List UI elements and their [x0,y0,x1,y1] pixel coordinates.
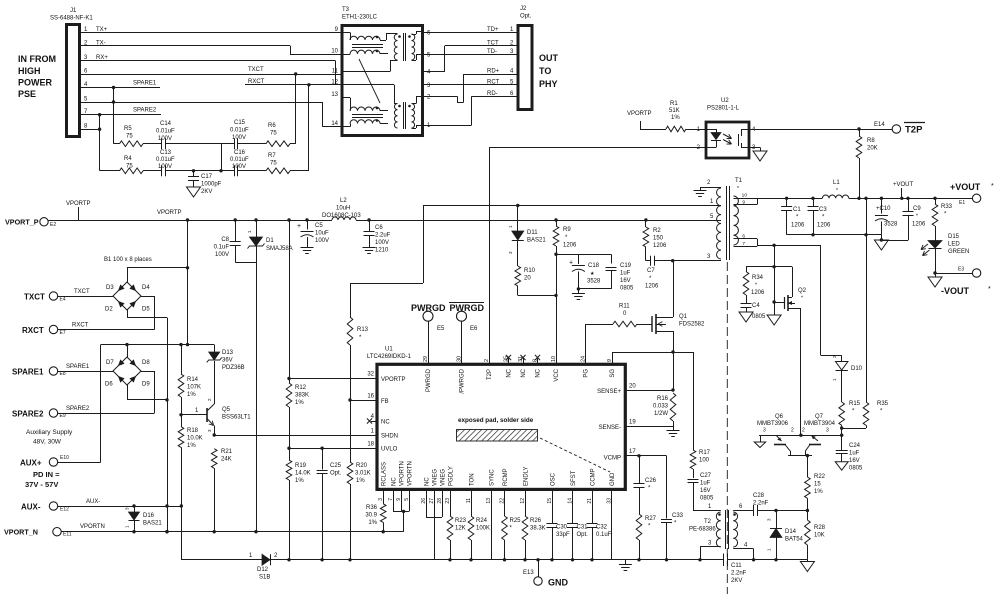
svg-text:1uF: 1uF [849,451,860,457]
svg-text:150: 150 [653,236,664,242]
svg-text:D10: D10 [851,366,863,372]
svg-text:T2: T2 [704,519,712,525]
svg-text:E1: E1 [959,200,965,206]
svg-text:S1B: S1B [259,575,270,581]
svg-text:C30: C30 [556,525,568,531]
svg-text:D14: D14 [785,529,797,535]
svg-text:Opt.: Opt. [520,14,532,20]
svg-text:C13: C13 [160,150,172,156]
svg-text:*: * [988,286,991,293]
svg-text:VPORTP: VPORTP [381,377,406,383]
svg-text:R16: R16 [657,396,669,402]
svg-text:R11: R11 [619,304,630,310]
svg-text:SYNC: SYNC [490,469,496,486]
svg-text:100V: 100V [315,238,329,244]
svg-text:PHY: PHY [539,79,558,89]
svg-text:C18: C18 [588,263,600,269]
svg-text:SENSE-: SENSE- [599,425,621,431]
svg-text:14: 14 [331,121,338,127]
svg-text:L1: L1 [833,180,840,186]
svg-text:0.01uF: 0.01uF [156,129,175,135]
svg-text:Q6: Q6 [775,414,784,420]
svg-text:/PWRGD: /PWRGD [460,368,466,393]
svg-text:C16: C16 [234,150,246,156]
svg-text:Q5: Q5 [222,407,231,413]
svg-text:Q7: Q7 [815,414,824,420]
svg-text:TXCT: TXCT [74,289,90,295]
svg-text:R10: R10 [524,268,536,274]
svg-text:33pF: 33pF [556,532,570,538]
svg-text:1%: 1% [187,443,196,449]
svg-text:20: 20 [524,276,531,282]
svg-text:D3: D3 [106,285,114,291]
svg-text:SPARE1: SPARE1 [133,81,157,87]
svg-text:C26: C26 [645,478,657,484]
svg-text:GND: GND [610,472,616,486]
svg-text:R26: R26 [530,518,542,524]
svg-text:L2: L2 [340,198,347,204]
svg-text:VNEG: VNEG [441,469,447,486]
svg-text:MMBT3906: MMBT3906 [757,421,789,427]
svg-text:0805: 0805 [849,466,863,472]
svg-text:D11: D11 [527,230,538,236]
svg-text:SPARE2: SPARE2 [12,410,44,419]
svg-text:R1: R1 [670,101,678,107]
svg-text:14.0K: 14.0K [295,471,311,477]
svg-text:C15: C15 [234,120,246,126]
svg-text:3528: 3528 [587,279,601,285]
svg-text:D15: D15 [948,234,960,240]
svg-text:10: 10 [331,49,338,55]
svg-text:E13: E13 [523,570,534,576]
svg-text:E3: E3 [958,267,964,273]
svg-text:24K: 24K [221,457,232,463]
svg-text:PE-68386: PE-68386 [689,527,716,533]
svg-text:0.1uF: 0.1uF [214,245,230,251]
svg-text:C17: C17 [201,174,213,180]
svg-text:10uH: 10uH [336,206,350,212]
svg-text:★: ★ [590,271,595,277]
svg-text:0.01uF: 0.01uF [230,157,249,163]
svg-text:9: 9 [742,200,745,206]
svg-text:100K: 100K [476,526,490,532]
svg-text:+: + [297,223,301,230]
svg-text:C11: C11 [731,563,742,569]
svg-text:+VOUT: +VOUT [950,182,981,192]
svg-text:75: 75 [270,161,277,167]
svg-text:*: * [836,188,838,194]
svg-text:PWRGD: PWRGD [426,368,432,392]
svg-text:BSS63LT1: BSS63LT1 [222,415,251,421]
svg-text:R18: R18 [187,428,199,434]
svg-text:C14: C14 [160,121,172,127]
svg-text:1%: 1% [295,400,304,406]
svg-text:20: 20 [629,384,636,390]
svg-text:PG: PG [584,369,590,378]
svg-text:AUX+: AUX+ [20,459,42,468]
svg-text:17: 17 [629,449,636,455]
svg-text:C1: C1 [793,207,801,213]
svg-text:C19: C19 [620,263,632,269]
svg-text:0.01uF: 0.01uF [230,128,249,134]
svg-text:AUX-: AUX- [21,503,41,512]
svg-text:NC: NC [521,368,527,377]
svg-text:2.2uF: 2.2uF [375,233,391,239]
svg-text:R17: R17 [699,450,711,456]
svg-text:75: 75 [126,164,133,170]
svg-text:VPORTP: VPORTP [157,210,182,216]
svg-text:VPORT_P: VPORT_P [5,218,39,227]
svg-text:PSE: PSE [18,89,36,99]
svg-text:RXCT: RXCT [72,323,89,329]
svg-text:+C10: +C10 [876,206,891,212]
svg-text:1%: 1% [187,392,196,398]
svg-text:RD-: RD- [487,91,498,97]
svg-text:12K: 12K [455,526,466,532]
svg-text:E2: E2 [50,222,56,228]
svg-text:R36: R36 [366,505,378,511]
svg-text:*: * [755,283,757,289]
svg-text:R35: R35 [877,401,889,407]
svg-text:exposed pad, solder side: exposed pad, solder side [458,417,534,424]
svg-text:TCT: TCT [487,40,499,46]
svg-text:C9: C9 [913,206,921,212]
svg-text:0805: 0805 [620,286,634,292]
svg-text:IN FROM: IN FROM [18,54,56,64]
svg-text:C24: C24 [849,443,861,449]
svg-text:R34: R34 [752,275,764,281]
svg-text:3.01K: 3.01K [355,471,371,477]
svg-text:SS-6488-NF-K1: SS-6488-NF-K1 [50,16,93,22]
svg-text:C31: C31 [577,525,589,531]
svg-text:C7: C7 [647,268,655,274]
svg-text:C33: C33 [672,513,684,519]
svg-text:16: 16 [367,394,374,400]
svg-text:16V: 16V [849,458,860,464]
svg-text:GND: GND [548,578,569,588]
svg-text:SHDN: SHDN [381,434,398,440]
svg-text:R23: R23 [455,518,467,524]
svg-text:CCMP: CCMP [591,468,597,486]
svg-text:13: 13 [331,92,338,98]
svg-text:30.9: 30.9 [365,513,377,519]
svg-text:2KV: 2KV [201,189,212,195]
svg-text:VCMP: VCMP [604,456,621,462]
svg-text:PGDLY: PGDLY [449,466,455,486]
svg-text:BAS21: BAS21 [143,521,162,527]
svg-text:RXCT: RXCT [22,326,44,335]
svg-text:D4: D4 [142,285,150,291]
svg-text:1206: 1206 [791,223,805,229]
svg-text:Q1: Q1 [679,314,688,320]
svg-text:100V: 100V [158,164,172,170]
svg-text:J1: J1 [70,8,77,14]
svg-text:100V: 100V [375,240,389,246]
svg-text:100V: 100V [232,135,246,141]
svg-text:R22: R22 [814,474,826,480]
svg-text:1206: 1206 [751,290,765,296]
svg-text:19: 19 [629,420,636,426]
svg-text:RCLASS: RCLASS [382,462,388,486]
svg-text:48V, 30W: 48V, 30W [33,439,62,446]
svg-text:R9: R9 [563,227,571,233]
svg-text:51K: 51K [669,108,680,114]
svg-text:37V - 57V: 37V - 57V [25,480,58,489]
svg-text:R27: R27 [645,516,657,522]
svg-text:C28: C28 [753,493,765,499]
svg-text:2KV: 2KV [731,578,742,584]
svg-text:1uF: 1uF [620,271,631,277]
svg-text:E10: E10 [60,455,69,461]
svg-text:E7: E7 [60,330,66,336]
svg-text:BAS21: BAS21 [527,238,546,244]
svg-text:C27: C27 [700,473,712,479]
svg-text:+VOUT: +VOUT [893,182,914,188]
svg-text:NC: NC [425,477,431,486]
svg-text:16V: 16V [700,488,711,494]
svg-text:1%: 1% [356,478,365,484]
svg-text:R25: R25 [510,518,522,524]
svg-text:NC: NC [507,368,513,377]
svg-text:1206: 1206 [817,223,831,229]
svg-text:PWRGD: PWRGD [450,303,485,313]
svg-text:MMBT3904: MMBT3904 [804,421,836,427]
svg-text:2: 2 [484,359,490,362]
svg-text:SFST: SFST [571,470,577,486]
svg-text:SENSE+: SENSE+ [597,389,621,395]
svg-text:R15: R15 [849,401,861,407]
svg-text:SPARE2: SPARE2 [66,406,90,412]
svg-text:NC: NC [536,368,542,377]
svg-text:E11: E11 [63,532,72,538]
svg-text:Opt.: Opt. [330,471,342,477]
svg-text:T3: T3 [342,7,350,13]
svg-text:E6: E6 [470,326,478,332]
svg-text:12: 12 [331,79,338,85]
svg-text:D16: D16 [143,513,155,519]
svg-text:1uF: 1uF [700,481,711,487]
svg-text:10uF: 10uF [315,231,329,237]
svg-text:SG: SG [610,369,616,378]
svg-text:75: 75 [270,131,277,137]
svg-text:1/2W: 1/2W [654,411,668,417]
svg-text:PDZ36B: PDZ36B [222,365,245,371]
svg-text:Q2: Q2 [798,288,807,294]
svg-text:SPARE1: SPARE1 [12,368,44,377]
svg-text:R21: R21 [221,449,233,455]
svg-text:R2: R2 [653,228,661,234]
svg-text:2.2nF: 2.2nF [753,501,769,507]
svg-text:T2P: T2P [905,125,923,136]
svg-text:0.033: 0.033 [653,404,669,410]
svg-text:1%: 1% [814,489,823,495]
svg-text:LED: LED [948,242,960,248]
svg-text:C4: C4 [752,303,760,309]
svg-text:R24: R24 [476,518,488,524]
svg-text:10.0K: 10.0K [187,436,203,442]
svg-text:1%: 1% [671,115,680,121]
svg-text:1206: 1206 [653,243,667,249]
svg-text:OUT: OUT [539,53,559,63]
svg-text:VNEG: VNEG [433,469,439,486]
svg-text:36V: 36V [222,358,233,364]
svg-text:NC: NC [392,477,398,486]
svg-text:GREEN: GREEN [948,249,969,255]
svg-text:15: 15 [814,482,821,488]
svg-text:E5: E5 [437,326,445,332]
svg-text:16V: 16V [620,278,631,284]
svg-text:R19: R19 [295,463,307,469]
svg-text:D6: D6 [105,382,113,388]
svg-text:3: 3 [763,428,766,434]
svg-text:U2: U2 [721,98,729,104]
svg-text:TD-: TD- [487,49,497,55]
svg-text:J2: J2 [520,6,527,12]
svg-text:D9: D9 [142,382,150,388]
svg-text:38.3K: 38.3K [530,526,546,532]
svg-text:TON: TON [470,473,476,486]
svg-text:0.01uF: 0.01uF [156,157,175,163]
svg-text:VPORT_N: VPORT_N [4,528,38,537]
svg-text:VPORTN: VPORTN [408,461,414,486]
svg-text:*: * [916,214,918,220]
svg-text:R20: R20 [356,463,368,469]
svg-text:OSC: OSC [551,472,557,486]
svg-text:NC: NC [381,420,390,426]
svg-text:3: 3 [826,428,829,434]
svg-text:R14: R14 [187,377,199,383]
svg-text:E14: E14 [874,122,885,128]
svg-text:R7: R7 [268,153,276,159]
svg-text:Auxiliary Supply: Auxiliary Supply [26,429,73,436]
svg-text:AUX-: AUX- [86,499,100,505]
svg-text:R4: R4 [124,156,132,162]
svg-text:U1: U1 [385,347,393,353]
svg-text:6: 6 [742,234,745,240]
svg-text:PS2801-1-L: PS2801-1-L [707,106,740,112]
svg-text:R12: R12 [295,385,307,391]
svg-text:1%: 1% [295,478,304,484]
svg-text:FB: FB [381,399,389,405]
svg-text:10: 10 [742,193,748,199]
svg-text:20K: 20K [867,146,878,152]
svg-text:PD IN =: PD IN = [33,470,60,479]
svg-text:C3: C3 [819,207,827,213]
svg-text:R8: R8 [867,138,875,144]
svg-text:TXCT: TXCT [24,293,45,302]
svg-text:100V: 100V [215,252,229,258]
svg-text:R28: R28 [814,525,826,531]
svg-text:1000pF: 1000pF [201,182,222,188]
svg-text:11: 11 [332,69,339,75]
svg-text:E4: E4 [60,297,66,303]
svg-text:3528: 3528 [884,222,898,228]
svg-text:C6: C6 [375,225,383,231]
svg-text:107K: 107K [187,385,201,391]
svg-text:1206: 1206 [912,222,926,228]
svg-text:TXCT: TXCT [248,67,264,73]
svg-text:ETH1-230LC: ETH1-230LC [342,15,378,21]
svg-text:D1: D1 [266,238,274,244]
svg-text:D13: D13 [222,350,234,356]
svg-text:2: 2 [791,428,794,434]
svg-text:0805: 0805 [700,496,714,502]
svg-text:75: 75 [126,134,133,140]
svg-text:*: * [801,296,803,302]
svg-text:D8: D8 [142,360,150,366]
svg-text:D5: D5 [142,307,150,313]
svg-text:1206: 1206 [645,284,659,290]
svg-text:BAT54: BAT54 [785,537,804,543]
svg-text:10K: 10K [814,533,825,539]
svg-text:FDS2582: FDS2582 [679,322,705,328]
svg-text:POWER: POWER [18,78,53,88]
svg-text:RCT: RCT [487,79,500,85]
svg-text:E12: E12 [60,507,69,513]
svg-text:LTC4269IDKD-1: LTC4269IDKD-1 [367,354,412,360]
svg-text:RD+: RD+ [487,69,500,75]
svg-text:1206: 1206 [563,243,577,249]
svg-text:B1 100 x 8 places: B1 100 x 8 places [104,257,152,263]
svg-text:UVLO: UVLO [381,447,398,453]
svg-text:1210: 1210 [375,248,389,254]
svg-text:*: * [991,183,994,190]
svg-text:VPORTP: VPORTP [627,111,652,117]
svg-text:100: 100 [699,458,710,464]
svg-text:ENDLY: ENDLY [524,466,530,486]
svg-text:100V: 100V [158,136,172,142]
svg-text:C25: C25 [330,463,342,469]
svg-text:C32: C32 [596,525,608,531]
svg-text:Opt.: Opt. [577,532,589,538]
svg-text:RCMP: RCMP [503,468,509,486]
svg-text:VPORTN: VPORTN [400,461,406,486]
svg-text:2.2nF: 2.2nF [731,571,747,577]
svg-text:100V: 100V [232,164,246,170]
svg-text:32: 32 [367,372,374,378]
svg-text:T2P: T2P [487,369,493,380]
svg-text:R5: R5 [124,126,132,132]
svg-text:D12: D12 [257,567,269,573]
svg-text:SMAJ58A: SMAJ58A [266,246,293,252]
svg-text:SPARE2: SPARE2 [133,108,157,114]
svg-text:7: 7 [742,241,745,247]
svg-text:R13: R13 [357,327,369,333]
svg-text:SPARE1: SPARE1 [66,364,90,370]
svg-text:*: * [737,186,739,192]
svg-text:0805: 0805 [752,314,766,320]
svg-text:D7: D7 [106,360,114,366]
svg-text:-VOUT: -VOUT [941,286,970,296]
svg-text:1%: 1% [368,520,377,526]
svg-text:D2: D2 [105,307,113,313]
svg-text:C8: C8 [221,237,229,243]
svg-text:T1: T1 [735,178,743,184]
svg-text:VPORTP: VPORTP [66,201,91,207]
svg-text:R6: R6 [268,123,276,129]
svg-text:C5: C5 [315,223,323,229]
svg-text:VCC: VCC [554,368,560,381]
svg-text:0.1uF: 0.1uF [596,532,612,538]
svg-text:DO1608C-103: DO1608C-103 [322,213,361,219]
svg-text:TO: TO [539,66,551,76]
svg-text:R33: R33 [941,204,953,210]
svg-text:18: 18 [367,442,374,448]
svg-text:383K: 383K [295,393,309,399]
svg-text:TD+: TD+ [487,27,499,33]
svg-text:2: 2 [802,428,805,434]
svg-text:VPORTN: VPORTN [80,524,105,530]
